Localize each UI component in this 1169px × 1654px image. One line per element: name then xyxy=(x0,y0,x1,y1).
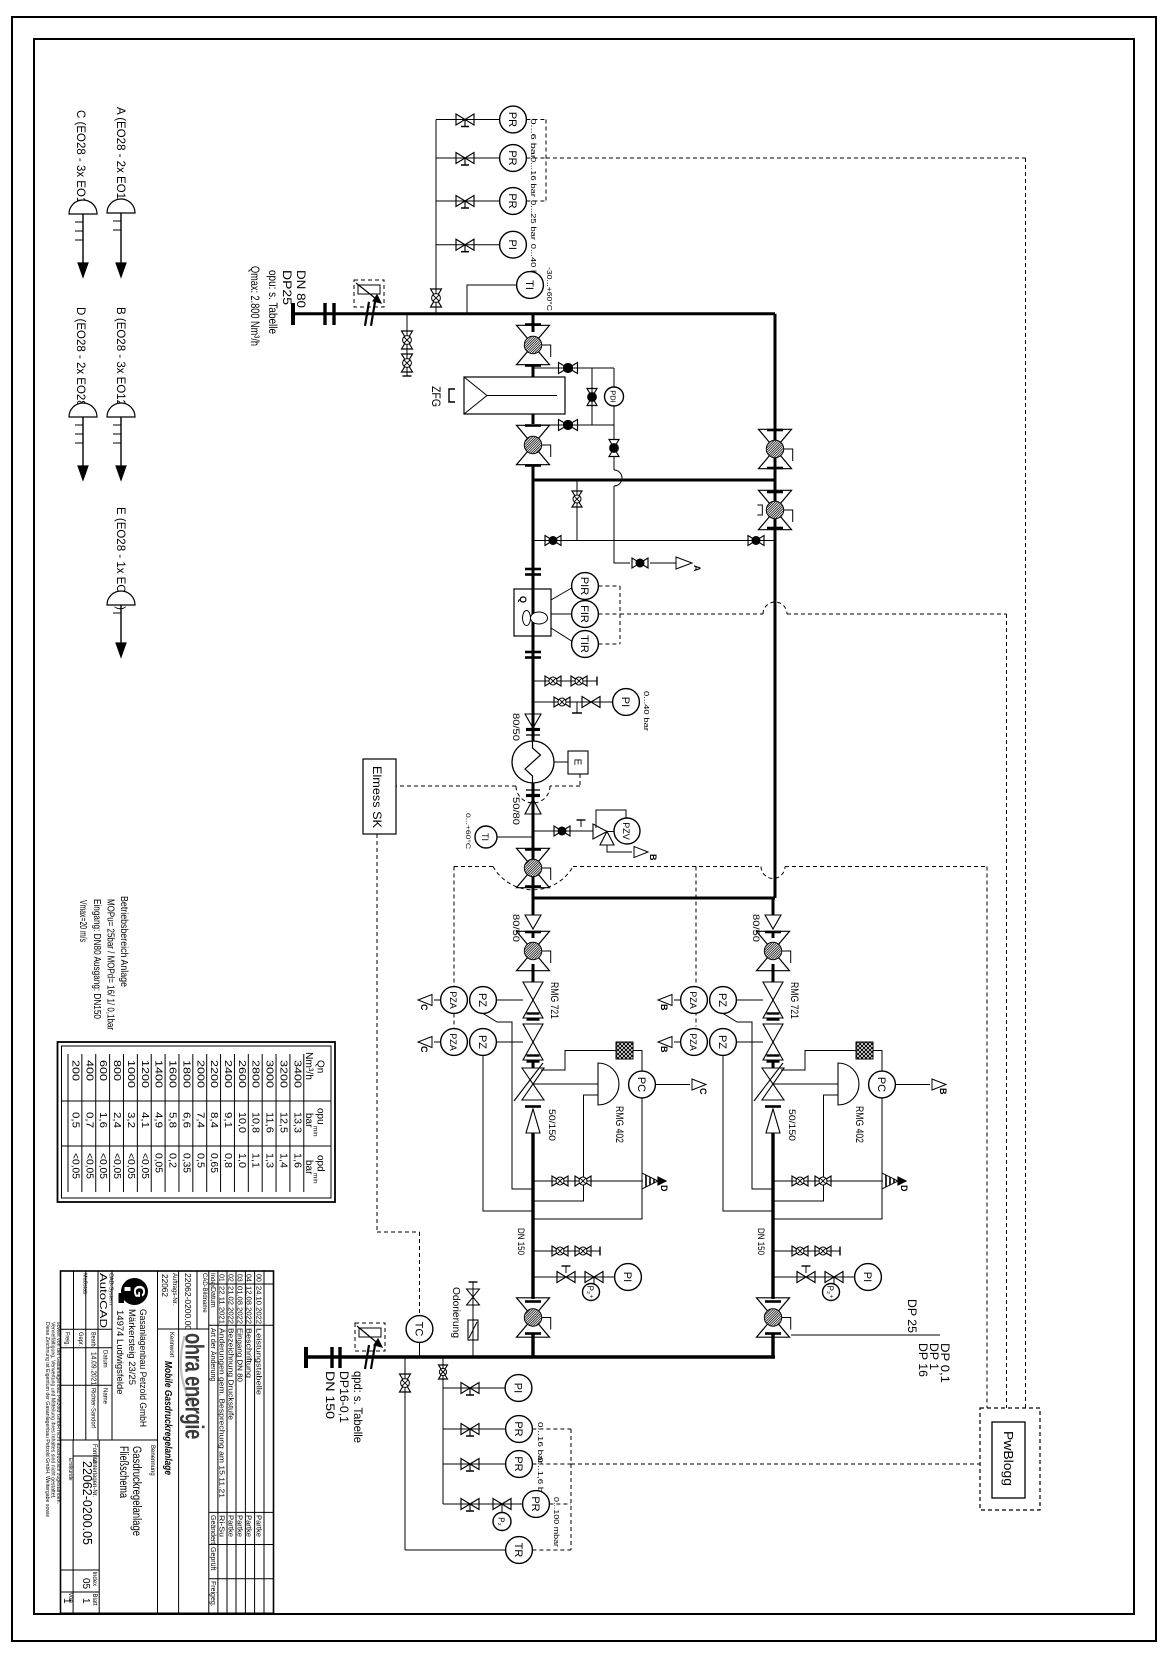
svg-text:AutoCAD: AutoCAD xyxy=(97,1273,108,1328)
svg-text:1: 1 xyxy=(80,1598,91,1604)
svg-text:D: D xyxy=(899,1185,909,1192)
svg-text:P₂⁺: P₂⁺ xyxy=(586,1286,595,1299)
capacity table grid xyxy=(67,1054,69,1192)
inlet flange pair xyxy=(323,303,326,325)
signal dashed PR tree xyxy=(526,119,546,121)
vent stack A symbol xyxy=(107,199,135,213)
SAV sense dashed drop left run xyxy=(453,867,455,987)
instrument PIR xyxy=(572,573,599,600)
odorizer wick xyxy=(468,1320,478,1340)
outlet flange pair xyxy=(330,1347,333,1368)
svg-text:4,9: 4,9 xyxy=(153,1112,164,1128)
PDI sense valve lower xyxy=(559,420,569,431)
run left PZA lower vent arrow xyxy=(434,1041,441,1043)
svg-text:opd: opd xyxy=(315,1155,326,1172)
svg-text:Bearb.: Bearb. xyxy=(90,1332,97,1348)
run left PZ impulse lines xyxy=(483,1013,533,1189)
run left instrument PI outlet xyxy=(615,1264,642,1291)
filter outlet ball valve xyxy=(517,425,550,445)
svg-text:Odorierung: Odorierung xyxy=(450,1287,462,1338)
riser isolation valve xyxy=(431,289,442,298)
run right PI branch xyxy=(773,1276,855,1278)
svg-text:Partke: Partke xyxy=(226,1515,233,1537)
svg-text:PR: PR xyxy=(506,193,518,208)
svg-text:B: B xyxy=(659,1004,669,1011)
svg-text:Diese Zeichnung ist Eigentum d: Diese Zeichnung ist Eigentum der Gasanla… xyxy=(44,1322,50,1517)
svg-text:-30...+60°C: -30...+60°C xyxy=(545,267,553,311)
svg-text:04: 04 xyxy=(244,1274,251,1282)
petzold logo circle xyxy=(121,1278,148,1305)
run left actuator dome xyxy=(598,1063,619,1105)
svg-text:PI: PI xyxy=(619,697,631,707)
bypass ball valve upper xyxy=(759,429,792,449)
svg-text:bar: bar xyxy=(303,1160,314,1175)
svg-text:1200: 1200 xyxy=(139,1060,150,1089)
meter PI branch xyxy=(533,701,613,703)
svg-text:1,1: 1,1 xyxy=(250,1153,261,1168)
PwBlogg dashed box xyxy=(980,1408,1040,1510)
svg-text:Ri-Su: Ri-Su xyxy=(217,1515,224,1537)
svg-text:1,3: 1,3 xyxy=(264,1153,275,1168)
benennung cell xyxy=(61,1439,158,1441)
inlet drain valve 1 xyxy=(402,331,413,340)
svg-text:D (EO28 - 2x EO28): D (EO28 - 2x EO28) xyxy=(74,307,86,411)
run right inlet ball valve xyxy=(772,932,775,938)
run right PC vent arrow xyxy=(895,1084,930,1086)
svg-text:PI: PI xyxy=(861,1272,873,1282)
svg-text:14.09.2021: 14.09.2021 xyxy=(90,1352,97,1385)
svg-text:0,7: 0,7 xyxy=(83,1112,94,1128)
instrument TC xyxy=(406,1316,433,1343)
equalizing riser valve xyxy=(572,491,582,499)
svg-text:01: 01 xyxy=(217,1274,224,1282)
instrument PI 0...40 bar xyxy=(500,231,527,258)
svg-text:Kennwort: Kennwort xyxy=(168,1332,174,1358)
svg-text:600: 600 xyxy=(97,1060,108,1082)
svg-text:E: E xyxy=(572,759,583,766)
run right SAV stage 2 xyxy=(763,1024,783,1042)
run right actuator dome xyxy=(838,1063,859,1105)
instrument PR 0..100mbar xyxy=(523,1491,550,1518)
heater E box line xyxy=(554,761,568,763)
instrument PZV xyxy=(607,831,614,833)
svg-text:FIR: FIR xyxy=(578,605,590,623)
filter PDI sense line upper xyxy=(533,367,614,369)
PZV branch line xyxy=(533,830,593,832)
svg-text:Name: Name xyxy=(102,1388,108,1405)
svg-text:03: 03 xyxy=(235,1274,242,1282)
svg-text:TC: TC xyxy=(413,1322,425,1337)
Elmess dashed to TC xyxy=(376,834,378,1232)
isolation valve for PI 0...40 bar xyxy=(456,239,465,250)
PZV relief valve xyxy=(593,824,607,839)
svg-text:0,5: 0,5 xyxy=(194,1153,205,1168)
svg-text:PZ: PZ xyxy=(716,993,728,1007)
run left outlet ball valve xyxy=(525,1300,541,1303)
meter to FIR line xyxy=(551,613,572,615)
run right outlet vent line D xyxy=(773,1180,883,1182)
run left dome impulse line xyxy=(533,1095,598,1201)
meter signal dashes xyxy=(598,585,620,587)
svg-text:Datum: Datum xyxy=(209,1287,216,1308)
instrument PI outlet tree xyxy=(505,1375,532,1402)
run left feed xyxy=(532,898,535,915)
svg-text:9,1: 9,1 xyxy=(222,1112,233,1128)
PDI sense valve upper xyxy=(559,363,569,374)
svg-text:qpd: s. Tabelle: qpd: s. Tabelle xyxy=(351,1371,365,1443)
svg-text:2200: 2200 xyxy=(208,1060,219,1089)
instrument PI meter 0..40bar xyxy=(613,689,640,716)
svg-text:PDI: PDI xyxy=(609,390,618,403)
meter run pipe xyxy=(532,480,535,898)
bypass riser from inlet xyxy=(774,314,777,480)
svg-text:A (EO28 - 2x EO12): A (EO28 - 2x EO12) xyxy=(114,107,126,209)
instrument FIR xyxy=(572,601,599,628)
run left inlet ball valve xyxy=(532,932,535,938)
svg-text:Elmess SK: Elmess SK xyxy=(370,766,384,828)
meter to TIR line xyxy=(551,628,572,641)
svg-text:05: 05 xyxy=(80,1578,91,1590)
vent A valve xyxy=(632,558,640,568)
svg-text:Geändert: Geändert xyxy=(209,1515,216,1544)
svg-text:<0,05: <0,05 xyxy=(83,1153,94,1179)
svg-text:B: B xyxy=(659,1046,669,1053)
run right PZA upper xyxy=(681,987,708,1014)
svg-text:soweit von der Gasanlagenbau P: soweit von der Gasanlagenbau Petzold Gmb… xyxy=(55,1322,61,1504)
outlet PR3 branch xyxy=(443,1503,523,1505)
svg-text:PR: PR xyxy=(506,150,518,165)
svg-text:12.08.2022: 12.08.2022 xyxy=(244,1286,251,1324)
svg-text:Vervielfältigung, Verwertung u: Vervielfältigung, Verwertung und Mitteil… xyxy=(50,1322,56,1498)
run left PZA upper vent arrow xyxy=(434,999,441,1001)
svg-text:DN 150: DN 150 xyxy=(323,1371,337,1419)
svg-text:3400: 3400 xyxy=(291,1060,302,1089)
title block frame xyxy=(61,1271,274,1613)
svg-text:Vmax=20 m/s: Vmax=20 m/s xyxy=(77,900,89,942)
meter vent branch xyxy=(533,680,590,682)
svg-text:Gepr.: Gepr. xyxy=(77,1332,84,1346)
svg-text:G: G xyxy=(130,1285,147,1297)
inlet drain branch line xyxy=(406,314,408,372)
run left PC impulse line xyxy=(533,1098,642,1219)
svg-text:PZ: PZ xyxy=(476,1035,488,1049)
run right dome impulse line xyxy=(773,1095,838,1201)
gas meter Q xyxy=(514,589,551,636)
surge arrester inlet xyxy=(354,280,384,307)
svg-text:PI: PI xyxy=(621,1272,633,1282)
inlet drain handle xyxy=(406,372,408,376)
instrument TI -30..+60C xyxy=(517,272,544,299)
title block revision strips xyxy=(208,1271,210,1613)
run right outlet ball valve xyxy=(765,1300,781,1303)
svg-text:Geprüft: Geprüft xyxy=(209,1547,216,1570)
vent stack E symbol xyxy=(107,591,135,605)
ZFG filter vessel xyxy=(464,377,565,414)
svg-text:RMG 721: RMG 721 xyxy=(548,982,560,1019)
instrument PDI xyxy=(605,387,624,406)
svg-text:0,2: 0,2 xyxy=(167,1153,178,1168)
svg-text:200: 200 xyxy=(69,1060,80,1082)
filter inlet ball valve xyxy=(517,325,550,345)
svg-text:PR: PR xyxy=(512,1456,524,1471)
svg-text:22.11.2021: 22.11.2021 xyxy=(217,1286,224,1324)
signal dashed long line to PwBlogg from PR tree xyxy=(546,157,1026,159)
svg-text:Partke: Partke xyxy=(235,1515,242,1537)
svg-text:<0,05: <0,05 xyxy=(111,1153,122,1179)
meter to PIR line xyxy=(551,588,572,600)
svg-text:Betriebsbereich Anlage: Betriebsbereich Anlage xyxy=(118,896,130,987)
branch line to PR at y119 xyxy=(436,119,500,121)
ZFG bracket xyxy=(449,389,455,402)
svg-text:Nm³/h: Nm³/h xyxy=(303,1052,314,1080)
svg-text:Leistungstabelle: Leistungstabelle xyxy=(255,1328,262,1395)
svg-text:0...40 bar: 0...40 bar xyxy=(642,691,649,732)
SAV inlet ball valve xyxy=(517,848,550,868)
svg-text:DN 80: DN 80 xyxy=(294,270,308,308)
svg-text:PI: PI xyxy=(512,1383,524,1393)
svg-text:PwBlogg: PwBlogg xyxy=(1001,1431,1015,1486)
svg-text:13,3: 13,3 xyxy=(291,1112,302,1133)
svg-text:P₂⁺: P₂⁺ xyxy=(826,1286,835,1299)
svg-text:0,05: 0,05 xyxy=(153,1153,164,1173)
svg-text:ohra energie: ohra energie xyxy=(180,1333,210,1439)
svg-text:A: A xyxy=(692,565,702,572)
isolation valve for PR 0...25 bar xyxy=(456,196,465,207)
inlet blind flange xyxy=(291,303,295,325)
svg-text:01.08.2022: 01.08.2022 xyxy=(235,1286,242,1324)
svg-text:Erstkunde: Erstkunde xyxy=(67,1458,73,1481)
heat exchanger outlet flanges xyxy=(526,789,540,791)
svg-text:1: 1 xyxy=(61,1598,72,1604)
filter drain valve xyxy=(609,440,619,449)
svg-text:CAD-Bildname: CAD-Bildname xyxy=(201,1273,207,1313)
svg-text:0,65: 0,65 xyxy=(208,1153,219,1173)
svg-text:<0,05: <0,05 xyxy=(125,1153,136,1179)
SAV sense dashed drop right run xyxy=(695,867,697,985)
outlet sample tree riser 1 xyxy=(404,1357,406,1550)
cross pipe filter to bypass xyxy=(533,479,775,482)
branch line to PR at y158 xyxy=(436,157,500,159)
svg-text:11,6: 11,6 xyxy=(264,1112,275,1133)
svg-text:80/50: 80/50 xyxy=(510,914,521,942)
run left PC vent arrow xyxy=(655,1084,690,1086)
run right PC impulse line xyxy=(773,1098,882,1219)
svg-text:opu: opu xyxy=(315,1108,326,1125)
insulating joint inlet xyxy=(365,302,369,326)
svg-text:0...25 bar: 0...25 bar xyxy=(529,200,536,241)
instrument PR 0...16 bar xyxy=(500,145,527,172)
svg-text:RMG 402: RMG 402 xyxy=(613,1106,625,1143)
vent stack C symbol xyxy=(69,200,97,214)
svg-text:B: B xyxy=(648,854,658,861)
instrument PR 0...25 bar xyxy=(500,188,527,215)
svg-text:10,0: 10,0 xyxy=(236,1112,247,1133)
heater E dashed to Elmess xyxy=(579,774,581,786)
svg-text:0,35: 0,35 xyxy=(180,1153,191,1173)
svg-text:<0,05: <0,05 xyxy=(69,1153,80,1179)
svg-text:2600: 2600 xyxy=(236,1060,247,1089)
svg-text:1000: 1000 xyxy=(125,1060,136,1089)
svg-text:Partke: Partke xyxy=(244,1515,251,1537)
svg-text:0...+60°C: 0...+60°C xyxy=(464,813,472,849)
surge arrester outlet xyxy=(355,1323,385,1351)
outlet sample tree riser 2 xyxy=(442,1357,444,1504)
svg-text:0...16 bar: 0...16 bar xyxy=(529,157,536,198)
FIR signal long dashed to PwBlogg xyxy=(620,613,763,615)
svg-text:2000: 2000 xyxy=(194,1060,205,1089)
bypass ball valve lower xyxy=(759,490,792,510)
vent stack D symbol xyxy=(69,403,97,417)
svg-text:PR: PR xyxy=(506,112,518,127)
svg-text:Bezeichnung Druckstufe: Bezeichnung Druckstufe xyxy=(226,1328,233,1420)
svg-text:10,8: 10,8 xyxy=(250,1112,261,1133)
svg-text:00: 00 xyxy=(255,1274,262,1282)
filter drain to vent A xyxy=(613,425,615,440)
svg-text:<0,05: <0,05 xyxy=(139,1153,150,1179)
svg-text:Gasanlagenbau Petzold GmbH: Gasanlagenbau Petzold GmbH xyxy=(138,1309,148,1427)
svg-text:B (EO28 - 3x EO12): B (EO28 - 3x EO12) xyxy=(114,307,126,410)
P2 sensor outlet tree xyxy=(501,1504,503,1512)
run right feed xyxy=(772,898,775,915)
filter PDI sense line lower xyxy=(533,424,614,426)
run left SAV stage 2 xyxy=(523,1024,543,1042)
outlet PR1 branch xyxy=(443,1428,506,1430)
svg-text:5,8: 5,8 xyxy=(167,1112,178,1128)
svg-text:P₂: P₂ xyxy=(497,1517,506,1525)
svg-text:Index: Index xyxy=(209,1273,215,1288)
equalizing valve left xyxy=(545,536,553,546)
outlet signal dashed tree xyxy=(532,1428,571,1430)
svg-text:4,1: 4,1 xyxy=(139,1112,150,1128)
run left PZA lower xyxy=(441,1029,468,1056)
svg-text:DP 25: DP 25 xyxy=(905,1299,919,1333)
instrument tree riser xyxy=(435,120,437,314)
heater E box xyxy=(568,751,588,774)
svg-text:PI: PI xyxy=(506,239,518,249)
svg-text:22062-0200.00: 22062-0200.00 xyxy=(183,1273,193,1330)
PDI sense mid vertical xyxy=(591,368,593,425)
svg-text:C: C xyxy=(698,1088,708,1095)
equalizing riser xyxy=(576,480,578,541)
run right PZ upper xyxy=(710,987,737,1014)
isolation valve for PR 0...6 bar xyxy=(456,114,465,125)
svg-text:Partke: Partke xyxy=(255,1515,262,1537)
instrument TI heater outlet xyxy=(475,826,497,848)
svg-text:22062-0200.05: 22062-0200.05 xyxy=(80,1461,94,1545)
run right pilot line with filter xyxy=(781,1051,856,1071)
svg-text:1600: 1600 xyxy=(167,1060,178,1089)
svg-text:22062: 22062 xyxy=(160,1274,170,1297)
svg-text:DN 150: DN 150 xyxy=(755,1228,766,1255)
svg-text:8,4: 8,4 xyxy=(208,1112,219,1128)
run left outlet vent line D xyxy=(533,1180,643,1182)
run left lower vent branch xyxy=(533,1250,593,1252)
run right instrument PI outlet xyxy=(855,1264,882,1291)
ohra energie logo swoosh xyxy=(181,1336,197,1411)
PZV branch handle xyxy=(580,820,582,827)
TI instrument line xyxy=(467,285,517,314)
outlet blind flange xyxy=(304,1347,308,1368)
svg-text:Eingang: DN80 Ausgang: DN150: Eingang: DN80 Ausgang: DN150 xyxy=(91,899,103,1019)
svg-text:Eingang DN 80: Eingang DN 80 xyxy=(235,1328,242,1382)
svg-text:min: min xyxy=(312,1173,319,1184)
svg-text:min: min xyxy=(312,1126,319,1137)
svg-text:D: D xyxy=(659,1185,669,1192)
svg-text:DN 150: DN 150 xyxy=(515,1228,526,1255)
format and unterlagen cells xyxy=(72,1440,74,1613)
svg-text:800: 800 xyxy=(111,1060,122,1082)
svg-text:1800: 1800 xyxy=(180,1060,191,1089)
run left PZA upper xyxy=(441,987,468,1014)
svg-text:12,5: 12,5 xyxy=(277,1112,288,1133)
svg-text:DP 0,1: DP 0,1 xyxy=(938,1343,952,1383)
svg-text:PR: PR xyxy=(512,1421,524,1436)
svg-text:opu: s. Tabelle: opu: s. Tabelle xyxy=(266,270,280,334)
svg-text:Datum: Datum xyxy=(102,1350,108,1368)
equalizing line xyxy=(533,540,775,542)
svg-text:C: C xyxy=(419,1046,429,1053)
svg-text:3000: 3000 xyxy=(264,1060,275,1089)
svg-text:Märkersteig 23/25: Märkersteig 23/25 xyxy=(127,1309,137,1385)
svg-text:TI: TI xyxy=(480,833,490,841)
svg-text:PZA: PZA xyxy=(448,1033,458,1051)
svg-text:PZV: PZV xyxy=(621,822,631,840)
svg-text:MOPu= 25bar / MOPd= 16/ 1/ 0,1: MOPu= 25bar / MOPd= 16/ 1/ 0,1bar xyxy=(105,899,117,1030)
svg-text:Q: Q xyxy=(518,596,528,603)
capacity table frame xyxy=(58,1042,336,1202)
svg-text:PC: PC xyxy=(635,1077,647,1092)
svg-text:Qn: Qn xyxy=(315,1060,326,1073)
instrument TR xyxy=(405,1549,506,1551)
instrument TIR xyxy=(572,631,599,658)
svg-text:0...6 bar: 0...6 bar xyxy=(529,119,536,160)
bearb gepr freig rows xyxy=(61,1347,113,1349)
svg-text:3,2: 3,2 xyxy=(125,1112,136,1128)
odorization valve xyxy=(467,1289,480,1297)
svg-text:Freigeg.: Freigeg. xyxy=(209,1581,216,1607)
run left PZ upper xyxy=(470,987,497,1014)
svg-text:80/50: 80/50 xyxy=(750,914,761,942)
svg-text:DP16-0,1: DP16-0,1 xyxy=(337,1371,351,1423)
svg-text:7,4: 7,4 xyxy=(194,1112,205,1128)
run left PZ lower xyxy=(470,1029,497,1056)
filter outlet flange xyxy=(532,414,535,424)
svg-text:Fließschema: Fließschema xyxy=(117,1446,129,1498)
PDI sense mid valve xyxy=(587,389,597,398)
title block id cells xyxy=(196,1271,198,1329)
svg-text:PZ: PZ xyxy=(476,993,488,1007)
odorization branch xyxy=(472,1282,474,1357)
run right expander 50/150 xyxy=(765,1105,781,1108)
svg-text:PZA: PZA xyxy=(688,1033,698,1051)
svg-text:400: 400 xyxy=(83,1060,94,1082)
svg-text:14974 Ludwigsfelde: 14974 Ludwigsfelde xyxy=(114,1310,125,1395)
meter outlet flanges xyxy=(525,651,541,654)
heat exchanger circle xyxy=(512,741,554,783)
run right PZA lower xyxy=(681,1029,708,1056)
svg-text:1,4: 1,4 xyxy=(277,1153,288,1168)
svg-text:50/150: 50/150 xyxy=(546,1109,557,1141)
svg-text:PZ: PZ xyxy=(716,1035,728,1049)
outlet header pipe xyxy=(340,1355,775,1358)
svg-text:TIR: TIR xyxy=(578,635,590,653)
isolation valve for PR 0...16 bar xyxy=(456,153,465,164)
svg-text:1,6: 1,6 xyxy=(291,1153,302,1168)
filter inlet tee flange xyxy=(532,314,535,332)
outlet PI branch xyxy=(443,1387,506,1389)
svg-text:0,5: 0,5 xyxy=(69,1112,80,1128)
svg-text:24.10.2022: 24.10.2022 xyxy=(255,1286,262,1324)
